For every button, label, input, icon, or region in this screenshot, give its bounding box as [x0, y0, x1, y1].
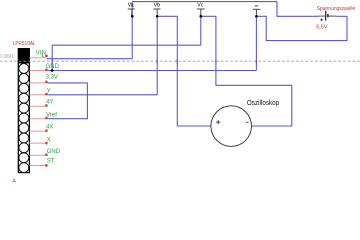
junction dot Vb [156, 15, 159, 18]
battery plus sign [320, 18, 323, 21]
wire repaint over dashed line [52, 59, 256, 64]
wire Vb stem x=157.2 [156, 16, 158, 95]
wire ground to battery minus loop [256, 16, 347, 40]
junction dot ground [255, 15, 258, 18]
svg-text:Oszilloskop: Oszilloskop [247, 100, 279, 107]
connector contact circles [19, 64, 29, 173]
svg-text:Y: Y [47, 88, 51, 94]
svg-text:A: A [12, 179, 16, 184]
junction dot Vc [199, 15, 202, 18]
svg-text:LPR510AL: LPR510AL [13, 41, 37, 47]
connector J1 body [18, 48, 30, 172]
oscilloscope circle [211, 106, 252, 147]
pin 4Y stub [29, 105, 46, 107]
pin ST stub [29, 165, 46, 167]
wire battery minus side [336, 15, 347, 17]
pin Vref stub [29, 118, 46, 120]
dashed baseline y=61.2 [0, 60, 360, 62]
wire ground stem x=256.4 [255, 16, 257, 70]
svg-text:4X: 4X [46, 124, 53, 130]
svg-text:Vc: Vc [197, 2, 203, 8]
wire 3.3V to Vref loop [48, 83, 88, 119]
svg-text:Vref: Vref [46, 113, 57, 119]
pin GND2 stub [29, 154, 46, 156]
svg-text:Vb: Vb [154, 2, 160, 8]
wire left vertical x=52.2 [51, 45, 53, 70]
wire Vc ground line y=45.2 [52, 44, 201, 46]
svg-text:4Y: 4Y [46, 99, 53, 105]
svg-text:Spannungsquelle: Spannungsquelle [317, 6, 356, 12]
svg-text:Va: Va [128, 2, 134, 8]
wire Vb branch to scope plus [157, 16, 211, 126]
svg-text:5,5V: 5,5V [316, 25, 328, 31]
oscilloscope minus terminal [246, 121, 248, 123]
pin 3.3V stub [29, 82, 46, 84]
pin labels [36, 51, 61, 165]
pin VIN stub [29, 57, 46, 59]
svg-text:3,3V: 3,3V [46, 74, 58, 80]
battery V1 [318, 15, 336, 17]
wire Y row y=94.8 [48, 94, 158, 96]
wire Va vertical x=132.2 [131, 2, 133, 59]
svg-text:VIN: VIN [36, 51, 46, 57]
pin stubs [29, 58, 46, 166]
pin Y stub [29, 94, 46, 96]
ground symbol (inverted) [253, 2, 261, 17]
wire top bus y=1.6 [132, 1, 277, 3]
wire Vc branch to scope minus [201, 16, 292, 126]
oscilloscope plus terminal [216, 120, 220, 124]
pin X stub [29, 142, 46, 144]
junction dot GND pin [51, 69, 54, 72]
junction dot Va [131, 15, 134, 18]
svg-text:X: X [47, 138, 51, 144]
svg-text:0.000: 0.000 [0, 54, 13, 60]
svg-text:ST: ST [47, 158, 55, 164]
svg-text:GND: GND [47, 149, 61, 155]
wire VIN row y=58.7 [47, 58, 133, 60]
pin GND stub [29, 70, 46, 72]
probe Vb [153, 9, 160, 16]
pin 4X stub [29, 130, 46, 132]
svg-text:GND: GND [46, 64, 60, 70]
wire battery plus side [277, 2, 318, 17]
probe Va [128, 9, 135, 16]
wire GND row y=70.5 [47, 70, 257, 72]
wire Vc stem x=200.8 [200, 16, 202, 45]
probe Vc [197, 9, 205, 16]
pin end markers [45, 55, 47, 167]
